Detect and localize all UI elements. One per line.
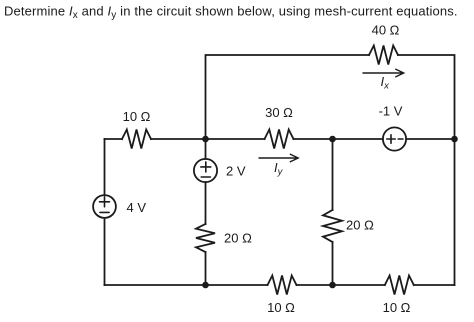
wire -1V source to right node	[406, 138, 454, 140]
resistor R 10ohm bottom-left	[268, 276, 297, 295]
node A junction dot	[202, 136, 209, 143]
resistor R 10ohm bottom-right	[385, 276, 414, 295]
wire right vertical lower	[454, 139, 456, 285]
wire node B to 20ohm right	[332, 139, 334, 210]
wire bottom right segment	[414, 284, 455, 286]
voltage source V 2V circle	[194, 159, 217, 182]
current arrow Ix	[363, 69, 404, 77]
wire bottom middle segment	[297, 284, 385, 286]
wire 20ohm left to bottom	[205, 252, 207, 285]
svg-text:40 Ω: 40 Ω	[372, 23, 400, 38]
svg-text:20 Ω: 20 Ω	[224, 231, 252, 246]
node D junction dot	[202, 282, 209, 289]
svg-text:2 V: 2 V	[226, 164, 246, 179]
wire top left segment	[206, 55, 370, 139]
svg-text:10 Ω: 10 Ω	[123, 109, 151, 124]
wire mid-left horizontal	[105, 138, 123, 140]
svg-text:30 Ω: 30 Ω	[265, 105, 293, 120]
voltage source V -1V circle	[383, 127, 406, 150]
wire 2V source to 20ohm	[205, 182, 207, 224]
wire left vertical upper	[104, 139, 106, 195]
current arrow Iy	[259, 154, 298, 162]
wire node A to 2V source	[205, 139, 207, 159]
svg-text:4 V: 4 V	[127, 200, 147, 215]
resistor R 30ohm	[265, 130, 294, 149]
node B junction dot	[329, 136, 336, 143]
4V source polarity minus	[100, 211, 109, 213]
resistor R 20ohm left	[196, 224, 215, 252]
wire left vertical lower	[104, 218, 106, 285]
wire top right segment	[398, 55, 455, 139]
resistor R 20ohm right	[323, 210, 342, 242]
wire bottom left segment	[105, 284, 268, 286]
node C junction dot	[451, 136, 458, 143]
4V source polarity plus	[100, 197, 110, 207]
2V source polarity plus	[201, 162, 211, 172]
svg-text:-1 V: -1 V	[379, 104, 403, 119]
svg-text:Determine Ix and Iy in the cir: Determine Ix and Iy in the circuit shown…	[4, 4, 458, 22]
resistor R 10ohm top	[122, 130, 151, 149]
wire 20ohm right to bottom	[332, 242, 334, 285]
wire 30ohm to -1V source	[294, 138, 383, 140]
-1V source polarity minus	[398, 138, 403, 140]
svg-text:20 Ω: 20 Ω	[346, 218, 374, 233]
wire between 10ohm and node A	[151, 138, 265, 140]
node E junction dot	[329, 282, 336, 289]
voltage source V 4V circle	[93, 195, 116, 218]
svg-text:10 Ω: 10 Ω	[383, 300, 411, 315]
resistor R 40ohm	[369, 46, 398, 65]
2V source polarity minus	[201, 176, 210, 178]
-1V source polarity plus	[387, 135, 395, 143]
svg-text:10 Ω: 10 Ω	[267, 300, 295, 315]
